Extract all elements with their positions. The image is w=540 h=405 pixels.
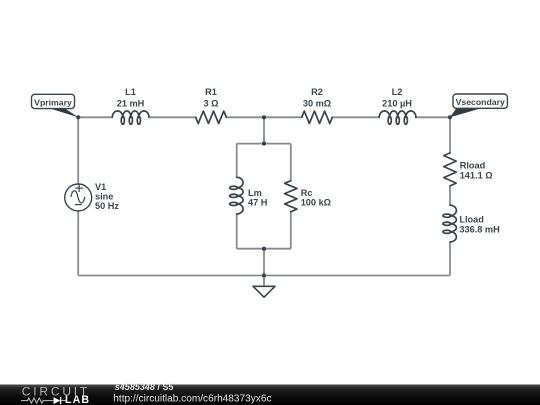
net flag Vprimary	[32, 94, 79, 117]
wire	[237, 248, 291, 250]
svg-text:L1: L1	[125, 87, 136, 97]
svg-text:210 µH: 210 µH	[382, 99, 412, 109]
voltage source V1	[65, 182, 120, 211]
node middle junction	[262, 115, 266, 119]
wire	[449, 242, 451, 276]
inductor Lload	[443, 205, 500, 242]
svg-text:L2: L2	[392, 87, 403, 97]
node Vprimary junction	[76, 115, 80, 119]
svg-text:Vsecondary: Vsecondary	[456, 97, 505, 107]
wire	[237, 143, 291, 145]
wire	[263, 117, 265, 143]
wire	[78, 116, 112, 118]
svg-text:100 kΩ: 100 kΩ	[301, 198, 331, 208]
wire	[263, 276, 265, 287]
svg-text:Vprimary: Vprimary	[34, 97, 72, 107]
svg-text:3 Ω: 3 Ω	[203, 99, 218, 109]
svg-text:LAB: LAB	[65, 394, 90, 405]
svg-text:336.8 mH: 336.8 mH	[459, 225, 500, 235]
svg-text:Lm: Lm	[248, 188, 262, 198]
svg-text:R1: R1	[205, 87, 217, 97]
wire	[290, 212, 292, 249]
node Vsecondary junction	[448, 115, 452, 119]
inductor Lm	[230, 177, 268, 214]
ground	[253, 286, 275, 297]
wire	[263, 249, 265, 276]
resistor Rc	[285, 181, 331, 212]
svg-text:141.1 Ω: 141.1 Ω	[460, 171, 493, 181]
wire	[226, 116, 301, 118]
node box top junction	[262, 142, 266, 146]
resistor R1	[196, 87, 227, 124]
svg-text:Rc: Rc	[301, 188, 313, 198]
wire	[77, 117, 79, 184]
wire	[332, 116, 379, 118]
inductor L2	[379, 87, 416, 124]
node ground junction	[262, 273, 266, 277]
svg-text:47 H: 47 H	[248, 198, 268, 208]
svg-text:Rload: Rload	[460, 161, 486, 171]
svg-text:21 mH: 21 mH	[117, 99, 145, 109]
svg-text:50 Hz: 50 Hz	[95, 201, 119, 211]
wire	[77, 211, 79, 276]
wire	[236, 214, 238, 249]
wire	[149, 116, 196, 118]
node box bottom junction	[262, 247, 266, 251]
schematic URL	[113, 394, 271, 405]
wire	[236, 144, 238, 178]
CircuitLab logo	[21, 385, 90, 405]
svg-text:R2: R2	[311, 87, 323, 97]
resistor Rload	[444, 153, 493, 186]
wire	[415, 116, 450, 118]
wire	[449, 117, 451, 153]
svg-text:s4585348 / S5: s4585348 / S5	[115, 382, 174, 392]
schematic title s4585348 / S5	[115, 382, 174, 392]
net flag Vsecondary	[450, 94, 507, 117]
wire	[449, 186, 451, 205]
svg-text:V1: V1	[95, 182, 106, 192]
wire	[290, 144, 292, 181]
svg-text:sine: sine	[95, 192, 113, 202]
wire	[78, 275, 450, 277]
bottom brand bar	[0, 385, 540, 405]
svg-text:Lload: Lload	[459, 215, 484, 225]
svg-text:30 mΩ: 30 mΩ	[303, 99, 331, 109]
svg-text:http://circuitlab.com/c6rh4837: http://circuitlab.com/c6rh48373yx6c	[113, 394, 271, 405]
inductor L1	[112, 87, 149, 124]
resistor R2	[302, 87, 333, 124]
